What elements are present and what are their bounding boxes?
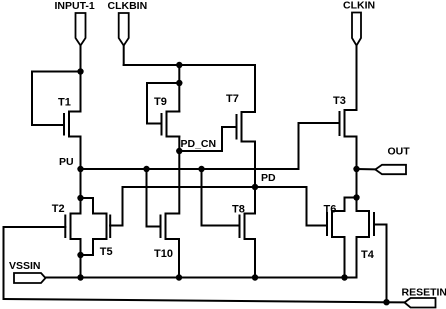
transistor T2 bbox=[4, 214, 81, 240]
node PU/T10 gate bbox=[143, 166, 149, 172]
svg-text:PD: PD bbox=[261, 172, 276, 184]
node PU junction bbox=[77, 166, 83, 172]
wire T6 source branch bbox=[344, 237, 346, 278]
transistor T9 bbox=[147, 112, 179, 137]
svg-text:T9: T9 bbox=[154, 96, 167, 108]
svg-text:T2: T2 bbox=[52, 203, 65, 215]
wire T3 source to OUT bbox=[356, 137, 358, 170]
wire OUT stub bbox=[357, 168, 376, 170]
svg-text:RESETIN: RESETIN bbox=[402, 287, 446, 299]
node T9 gate tap bbox=[176, 80, 182, 86]
transistor T3 bbox=[299, 110, 357, 137]
svg-text:CLKBIN: CLKBIN bbox=[108, 0, 148, 12]
wire OUT to pair T6/T4 bbox=[356, 169, 358, 211]
wire T3 gate riser from PU bbox=[298, 123, 300, 169]
wire PU to pair T2/T5 bbox=[80, 169, 82, 214]
wire T6 drain branch bbox=[345, 198, 357, 212]
node RESETIN/T4 gate bbox=[383, 299, 389, 305]
wire T8 source bbox=[254, 239, 256, 278]
wire T7 source to PD bbox=[254, 142, 256, 188]
node T10 on VSS rail bbox=[176, 274, 182, 280]
wire PD left end to T5 gate bbox=[110, 187, 122, 226]
svg-text:T10: T10 bbox=[154, 248, 173, 260]
wire CLKIN drop / T3 drain bbox=[356, 46, 358, 111]
svg-text:T3: T3 bbox=[333, 95, 346, 107]
node T2/T5 top branch bbox=[77, 195, 83, 201]
wire T2 gate left edge drop bbox=[3, 227, 5, 299]
transistor T6 bbox=[307, 211, 345, 237]
wire T4 source down bbox=[345, 237, 357, 278]
wire T9 gate loop top bbox=[147, 82, 179, 84]
transistor T8 bbox=[202, 214, 256, 240]
wire T1 gate loop top bbox=[32, 71, 81, 73]
wire PU rail bbox=[81, 168, 299, 170]
svg-text:T8: T8 bbox=[232, 204, 245, 216]
transistor T7 bbox=[222, 112, 255, 142]
wire T9 gate loop left bbox=[146, 83, 148, 124]
svg-text:VSSIN: VSSIN bbox=[9, 260, 41, 272]
wire T8 drain from PD bbox=[254, 187, 256, 214]
node T6/T4 top branch bbox=[353, 194, 359, 200]
node pair1 on VSS rail bbox=[77, 274, 83, 280]
node PU/T8 gate bbox=[198, 166, 204, 172]
svg-text:PU: PU bbox=[59, 156, 74, 168]
wire INPUT-1 drop bbox=[80, 46, 82, 112]
wire T1 gate loop left bbox=[31, 72, 33, 126]
wire T7 drain bbox=[254, 65, 256, 112]
transistor T4 bbox=[357, 211, 387, 237]
wire PD_CN to T7 gate bbox=[179, 127, 222, 151]
svg-text:OUT: OUT bbox=[388, 146, 411, 158]
transistor T1 bbox=[32, 112, 81, 137]
transistor T5 bbox=[93, 214, 123, 240]
node PD_CN junction bbox=[176, 148, 182, 154]
svg-text:T4: T4 bbox=[361, 249, 375, 261]
svg-text:T6: T6 bbox=[324, 204, 337, 216]
wire CLKBIN rail bbox=[124, 64, 255, 66]
svg-text:T5: T5 bbox=[100, 246, 113, 258]
node OUT junction bbox=[353, 166, 359, 172]
wire T10 gate riser from PU bbox=[146, 169, 148, 227]
wire T5 drain branch bbox=[81, 198, 94, 214]
wire T10 source bbox=[178, 239, 180, 278]
pin INPUT-1 bbox=[76, 13, 86, 46]
pin RESETIN bbox=[405, 298, 436, 308]
svg-text:T1: T1 bbox=[58, 97, 71, 109]
svg-text:INPUT-1: INPUT-1 bbox=[55, 0, 95, 12]
wire RESETIN line bbox=[4, 299, 405, 302]
wire T1 source to PU bbox=[80, 137, 82, 170]
node pair2 on VSS rail bbox=[341, 274, 347, 280]
svg-text:PD_CN: PD_CN bbox=[181, 138, 217, 150]
svg-text:T7: T7 bbox=[226, 93, 239, 105]
node PD junction bbox=[252, 184, 258, 190]
wire T9 source to PD_CN bbox=[178, 137, 180, 152]
wire T4 gate drop to RESETIN bbox=[386, 225, 388, 303]
pin VSSIN bbox=[14, 273, 46, 283]
wire VSS rail bbox=[46, 277, 357, 279]
pin CLKIN bbox=[352, 13, 361, 46]
wire PD_CN drop to T10 drain bbox=[178, 151, 180, 214]
node T2/T5 bottom branch bbox=[77, 252, 83, 258]
wire T5 source branch bbox=[81, 239, 94, 255]
svg-text:CLKIN: CLKIN bbox=[343, 0, 375, 12]
wire T2 source down bbox=[80, 239, 82, 278]
wire T9 drain bbox=[178, 65, 180, 112]
transistor T10 bbox=[147, 214, 180, 240]
wire PD right drop to T6 gate bbox=[307, 187, 328, 226]
node CLKBIN/T9 drain junction bbox=[176, 62, 182, 68]
node T8 on VSS rail bbox=[252, 274, 258, 280]
node T1 gate-drain junction bbox=[77, 68, 83, 74]
pin OUT bbox=[375, 165, 406, 174]
wire T8 gate riser from PU bbox=[201, 169, 203, 226]
wire PD rail bbox=[123, 186, 307, 188]
wire CLKBIN drop bbox=[123, 46, 125, 66]
pin CLKBIN bbox=[119, 13, 129, 46]
